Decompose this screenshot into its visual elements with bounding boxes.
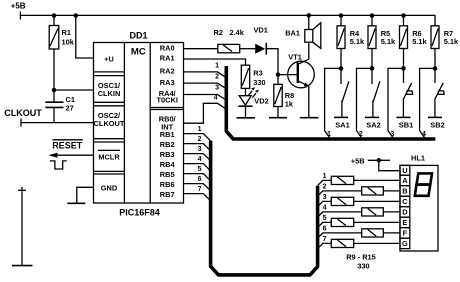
resistor R15 <box>331 239 400 247</box>
svg-text:R1: R1 <box>62 28 71 37</box>
svg-text:VT1: VT1 <box>288 53 302 62</box>
node OSC1 <box>52 88 57 93</box>
wire RB5 jog <box>184 166 211 181</box>
label R9 - R15 <box>346 252 376 270</box>
svg-text:SB1: SB1 <box>399 120 413 129</box>
pulse waveform symbol <box>50 161 67 169</box>
resistor R1 <box>49 16 75 50</box>
resistor R4 <box>337 16 365 69</box>
speaker BA1 <box>285 15 321 48</box>
svg-text:D: D <box>402 208 408 217</box>
wire OSC1 node to chip <box>54 89 94 91</box>
svg-text:330: 330 <box>253 78 265 87</box>
wire node to bus jog 4 <box>420 68 435 139</box>
svg-text:MC: MC <box>131 46 146 57</box>
wire bus to R12 jog 4 <box>318 205 362 218</box>
svg-text:2: 2 <box>215 74 219 81</box>
svg-text:DD1: DD1 <box>130 30 148 40</box>
svg-text:R2: R2 <box>214 28 223 37</box>
svg-text:RB6: RB6 <box>160 180 175 189</box>
button SB1 <box>399 68 413 129</box>
svg-text:CLKOUT: CLKOUT <box>94 119 125 128</box>
LED VD2 <box>238 96 268 118</box>
wire bus to R10 jog 2 <box>318 184 362 197</box>
svg-text:5.1k: 5.1k <box>444 37 459 46</box>
svg-text:A: A <box>402 176 408 185</box>
pin box OSC1/CLKIN <box>94 81 125 106</box>
bus RB to display <box>211 141 318 275</box>
svg-text:G: G <box>402 239 408 248</box>
node R7-SB2 <box>433 66 438 71</box>
wire VT1 emitter to ground <box>308 86 310 118</box>
pin box GND <box>101 184 118 193</box>
wire node to bus jog 1 <box>325 68 341 139</box>
wire RB4 jog <box>184 156 211 171</box>
LED arrows VD2 <box>249 87 259 97</box>
svg-text:F: F <box>403 229 408 238</box>
svg-text:B: B <box>402 187 407 196</box>
svg-text:3: 3 <box>215 84 219 91</box>
svg-text:+U: +U <box>104 54 114 63</box>
svg-text:5.1k: 5.1k <box>350 37 365 46</box>
svg-text:3: 3 <box>198 146 202 153</box>
svg-text:2.4k: 2.4k <box>230 28 245 37</box>
wire RESET to MCLR with arrow <box>49 153 94 158</box>
svg-text:3: 3 <box>323 194 327 201</box>
svg-text:VD2: VD2 <box>254 97 268 106</box>
pin box OSC2/CLKOUT <box>94 111 125 142</box>
net +5B label at display <box>351 156 365 165</box>
wire RB7 jog <box>184 186 211 201</box>
svg-text:1: 1 <box>198 126 202 133</box>
node +5B display <box>377 158 382 163</box>
svg-text:SA1: SA1 <box>335 120 349 129</box>
svg-text:2: 2 <box>198 136 202 143</box>
svg-text:5: 5 <box>198 166 202 173</box>
resistor R10 <box>362 187 400 195</box>
terminal tick floating ground <box>18 189 26 191</box>
wire VT1 collector to BA1 <box>308 42 310 59</box>
wire RA0 to R2 <box>184 48 218 50</box>
svg-text:1k: 1k <box>285 99 294 108</box>
wire node to bus jog 2 <box>357 68 373 139</box>
terminal tick CLKOUT <box>20 119 22 127</box>
svg-text:RA1: RA1 <box>160 54 175 63</box>
resistor R13 <box>331 218 400 226</box>
wire R3 to VD2 <box>245 88 247 95</box>
svg-text:4: 4 <box>422 131 426 138</box>
resistor R11 <box>331 197 400 205</box>
node rail-+U <box>74 13 79 18</box>
svg-text:RA2: RA2 <box>160 67 175 76</box>
svg-text:7: 7 <box>198 186 202 193</box>
svg-text:+5B: +5B <box>351 156 365 165</box>
svg-text:3: 3 <box>390 131 394 138</box>
bus RA to switches <box>226 66 435 139</box>
svg-text:5: 5 <box>323 215 327 222</box>
svg-text:1: 1 <box>327 131 331 138</box>
wire RA1 to R3 <box>184 59 246 65</box>
wire R1 to OSC1 node <box>53 49 55 90</box>
svg-text:CLKOUT: CLKOUT <box>4 108 42 118</box>
svg-text:10k: 10k <box>62 38 75 47</box>
ground SA2 <box>365 116 379 118</box>
svg-text:RB4: RB4 <box>160 160 176 169</box>
resistor R8 <box>274 75 294 109</box>
switch SA1 <box>335 68 349 129</box>
resistor R12 <box>362 208 400 216</box>
wire bus to R9 jog 1 <box>318 173 332 186</box>
svg-text:E: E <box>402 218 407 227</box>
svg-text:330: 330 <box>357 262 369 271</box>
switch SA2 <box>366 68 380 129</box>
svg-text:MCLR: MCLR <box>98 152 120 161</box>
IC DD1 PIC16F84 outline <box>94 30 184 217</box>
svg-text:PIC16F84: PIC16F84 <box>119 207 160 217</box>
wire CLKOUT to chip OSC2 <box>21 122 94 124</box>
svg-text:CLKIN: CLKIN <box>98 89 121 98</box>
svg-text:RESET: RESET <box>52 141 83 151</box>
svg-text:R3: R3 <box>253 68 262 77</box>
svg-text:6: 6 <box>323 226 327 233</box>
wire RB3 jog <box>184 146 211 161</box>
wire floating ground stem <box>21 187 23 266</box>
svg-text:RB2: RB2 <box>160 140 175 149</box>
wire bus to R15 jog 7 <box>318 236 332 249</box>
node R6-SB1 <box>401 66 406 71</box>
svg-text:GND: GND <box>101 184 118 193</box>
ground SA1 <box>334 116 348 118</box>
svg-text:5.1k: 5.1k <box>412 37 427 46</box>
wire RB2 jog <box>184 136 211 151</box>
svg-text:C: C <box>402 197 408 206</box>
node rail-R4 <box>339 13 344 18</box>
wire bus to R13 jog 5 <box>318 215 332 228</box>
svg-text:RB1: RB1 <box>160 130 175 139</box>
svg-text:RB5: RB5 <box>160 170 175 179</box>
svg-text:HL1: HL1 <box>411 153 425 162</box>
wire bus to R14 jog 6 <box>318 226 362 239</box>
resistor R3 <box>241 65 265 88</box>
svg-text:SA2: SA2 <box>366 120 380 129</box>
pin label RB0/INT <box>159 114 176 131</box>
resistor R9 <box>331 176 400 184</box>
terminal tick +5B <box>19 12 21 20</box>
wire RA4 to bus jog 3 <box>184 84 226 100</box>
svg-text:U: U <box>402 166 407 175</box>
terminal CLKOUT label <box>4 108 42 118</box>
svg-text:1: 1 <box>215 63 219 70</box>
svg-text:RA0: RA0 <box>160 44 175 53</box>
wire RA3 to bus jog 2 <box>184 74 226 89</box>
net RESET label <box>52 140 83 151</box>
svg-text:RB7: RB7 <box>160 190 175 199</box>
svg-text:VD1: VD1 <box>254 25 268 34</box>
wire rail to +U pin <box>76 16 94 59</box>
resistor R5 <box>368 16 396 69</box>
resistor R14 <box>362 229 400 237</box>
svg-text:RB3: RB3 <box>160 150 175 159</box>
ground chip <box>67 202 85 204</box>
svg-text:RA3: RA3 <box>160 78 175 87</box>
svg-text:SB2: SB2 <box>430 120 444 129</box>
transistor VT1 <box>288 53 315 88</box>
ground floating <box>12 265 33 267</box>
svg-text:4: 4 <box>323 205 327 212</box>
resistor R6 <box>400 16 428 69</box>
ground SB2 <box>428 116 442 118</box>
capacitor C1 <box>45 90 75 123</box>
resistor R2 <box>214 28 245 53</box>
resistor R7 <box>431 26 459 69</box>
svg-text:27: 27 <box>66 104 74 113</box>
svg-text:4: 4 <box>214 95 218 102</box>
wire RA2 to bus jog 1 <box>184 63 226 78</box>
ground R8 <box>269 117 287 119</box>
seven-segment digit 8 <box>415 173 432 195</box>
node R5-SA2 <box>370 66 375 71</box>
svg-text:2: 2 <box>323 184 327 191</box>
wire RB6 jog <box>184 176 211 191</box>
ground VT1 <box>300 117 319 119</box>
wire +5B top rail <box>20 15 435 25</box>
svg-text:1: 1 <box>323 173 327 180</box>
node rail-R6 <box>401 13 406 18</box>
svg-text:7: 7 <box>323 236 327 243</box>
ground VD2 <box>237 117 256 119</box>
pin box MCLR <box>94 150 125 174</box>
pin box +U <box>94 54 125 75</box>
node rail-R1 <box>52 13 57 18</box>
wire +5B to HL1 pin U <box>368 160 400 170</box>
button SB2 <box>430 68 444 129</box>
wire VD1 to base node <box>266 49 278 75</box>
svg-text:R9 - R15: R9 - R15 <box>346 252 376 261</box>
pin divider RA/RB <box>150 108 183 110</box>
svg-text:4: 4 <box>198 156 202 163</box>
net +5B label top-left <box>11 1 26 10</box>
wire GND pin to ground <box>77 187 94 203</box>
svg-text:T0CKI: T0CKI <box>157 96 178 105</box>
diode VD1 <box>254 25 268 54</box>
node base/R8 <box>276 72 281 77</box>
display HL1 <box>400 153 438 251</box>
svg-text:5.1k: 5.1k <box>381 37 396 46</box>
wire RB1 jog <box>184 126 211 141</box>
wire node to bus jog 3 <box>388 68 404 139</box>
wire RB0 to bus jog 4 <box>184 95 226 124</box>
wire R2 to VD1 <box>240 48 256 50</box>
wire base node to VT1 base <box>278 74 298 76</box>
svg-text:6: 6 <box>198 176 202 183</box>
wire bus to R11 jog 3 <box>318 194 332 207</box>
pin label RA4/T0CKI <box>157 89 178 105</box>
node R4-SA1 <box>339 66 344 71</box>
svg-text:2: 2 <box>359 131 363 138</box>
wire R8 to ground <box>277 107 279 118</box>
node rail-R5 <box>370 13 375 18</box>
node rail-BA1 <box>307 13 312 18</box>
svg-text:BA1: BA1 <box>285 29 300 38</box>
ground SB1 <box>397 116 411 118</box>
svg-text:+5B: +5B <box>11 1 26 10</box>
